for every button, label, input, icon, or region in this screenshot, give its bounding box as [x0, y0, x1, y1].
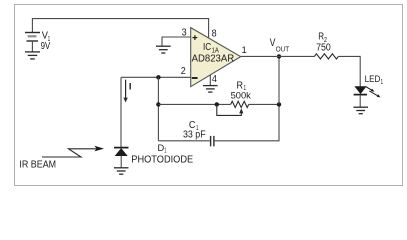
LED emission arrows	[366, 86, 378, 95]
svg-text:750: 750	[316, 43, 331, 54]
R1 wiper arm	[217, 104, 242, 115]
current arrow I	[123, 80, 127, 103]
photodiode D1	[114, 147, 129, 149]
wire left drop to photodiode	[120, 77, 122, 147]
resistor R2 750 zigzag	[314, 54, 338, 59]
svg-text:IC: IC	[203, 42, 211, 53]
pin 4 lead	[209, 75, 211, 86]
wire bottom C1 left	[158, 140, 209, 142]
LED1 diode	[355, 87, 366, 94]
wire LED cathode	[359, 95, 361, 108]
wire inverting input	[121, 76, 191, 78]
ground (photodiode)	[114, 168, 129, 174]
resistor R1 500k zigzag	[231, 101, 249, 107]
wire summing drop	[157, 77, 159, 141]
wire feedback bus	[158, 103, 230, 105]
IR beam arrow	[42, 149, 97, 157]
svg-text:1: 1	[241, 45, 246, 56]
svg-text:IR BEAM: IR BEAM	[19, 160, 56, 171]
ground (pin 4)	[203, 86, 218, 93]
svg-text:AD823AR: AD823AR	[192, 53, 235, 64]
svg-text:OUT: OUT	[276, 44, 290, 53]
svg-text:1: 1	[381, 79, 384, 86]
border frame	[15, 5, 403, 186]
wire bottom C1 right	[215, 104, 279, 140]
op-amp U1 triangle	[191, 28, 241, 87]
op-amp + symbol	[193, 35, 198, 40]
svg-text:8: 8	[212, 29, 217, 40]
node B bus-left dot	[156, 102, 160, 106]
wire R2 to LED	[338, 56, 360, 86]
battery V1	[25, 33, 40, 42]
svg-text:I: I	[129, 81, 132, 92]
ground (LED)	[353, 107, 368, 114]
svg-text:9V: 9V	[41, 41, 51, 52]
wire output	[241, 55, 315, 57]
wire battery negative lead	[31, 41, 33, 52]
ground (pin 3)	[156, 46, 171, 53]
svg-text:500k: 500k	[231, 90, 251, 101]
svg-text:LED: LED	[365, 73, 381, 84]
svg-text:33 pF: 33 pF	[183, 130, 206, 141]
capacitor C1	[211, 136, 214, 146]
ground (battery)	[25, 52, 40, 59]
svg-text:PHOTODIODE: PHOTODIODE	[131, 154, 193, 165]
svg-text:2: 2	[181, 66, 186, 77]
svg-text:4: 4	[212, 74, 217, 85]
wire top rail V+	[32, 19, 208, 38]
wire photodiode anode	[120, 156, 122, 168]
node A summing dot	[156, 75, 160, 79]
wire pin3 to ground	[162, 37, 191, 46]
wire feedback riser	[278, 56, 280, 104]
node D feedback-right dot	[277, 102, 281, 106]
op-amp - symbol	[192, 77, 198, 79]
node VOUT dot	[277, 54, 281, 58]
wire bus right of R1	[249, 103, 279, 105]
node C wiper dot	[215, 102, 219, 106]
